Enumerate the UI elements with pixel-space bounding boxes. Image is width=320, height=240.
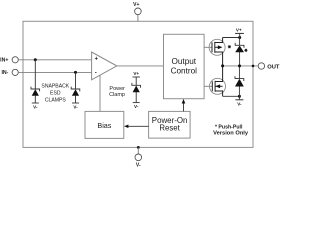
svg-text:Version Only: Version Only xyxy=(213,130,249,136)
svg-text:SNAPBACK: SNAPBACK xyxy=(41,83,69,89)
svg-text:-: - xyxy=(95,71,97,77)
svg-text:CLAMPS: CLAMPS xyxy=(45,98,67,104)
svg-text:ESD: ESD xyxy=(50,90,61,96)
svg-text:+: + xyxy=(95,56,99,62)
svg-text:Output: Output xyxy=(172,57,197,66)
svg-text:V-: V- xyxy=(33,105,38,110)
svg-text:V-: V- xyxy=(73,105,78,110)
svg-text:V-: V- xyxy=(136,163,141,169)
svg-text:Clamp: Clamp xyxy=(109,92,125,98)
svg-text:Reset: Reset xyxy=(159,124,180,133)
svg-text:IN-: IN- xyxy=(1,70,8,76)
svg-text:Control: Control xyxy=(171,66,198,75)
svg-text:V-: V- xyxy=(134,104,139,109)
svg-text:Bias: Bias xyxy=(97,121,111,130)
svg-text:OUT: OUT xyxy=(267,64,280,70)
svg-text:V+: V+ xyxy=(133,71,139,76)
svg-text:IN+: IN+ xyxy=(0,58,8,64)
svg-text:V+: V+ xyxy=(236,27,242,32)
svg-text:V+: V+ xyxy=(133,2,139,8)
svg-text:V-: V- xyxy=(237,101,242,106)
